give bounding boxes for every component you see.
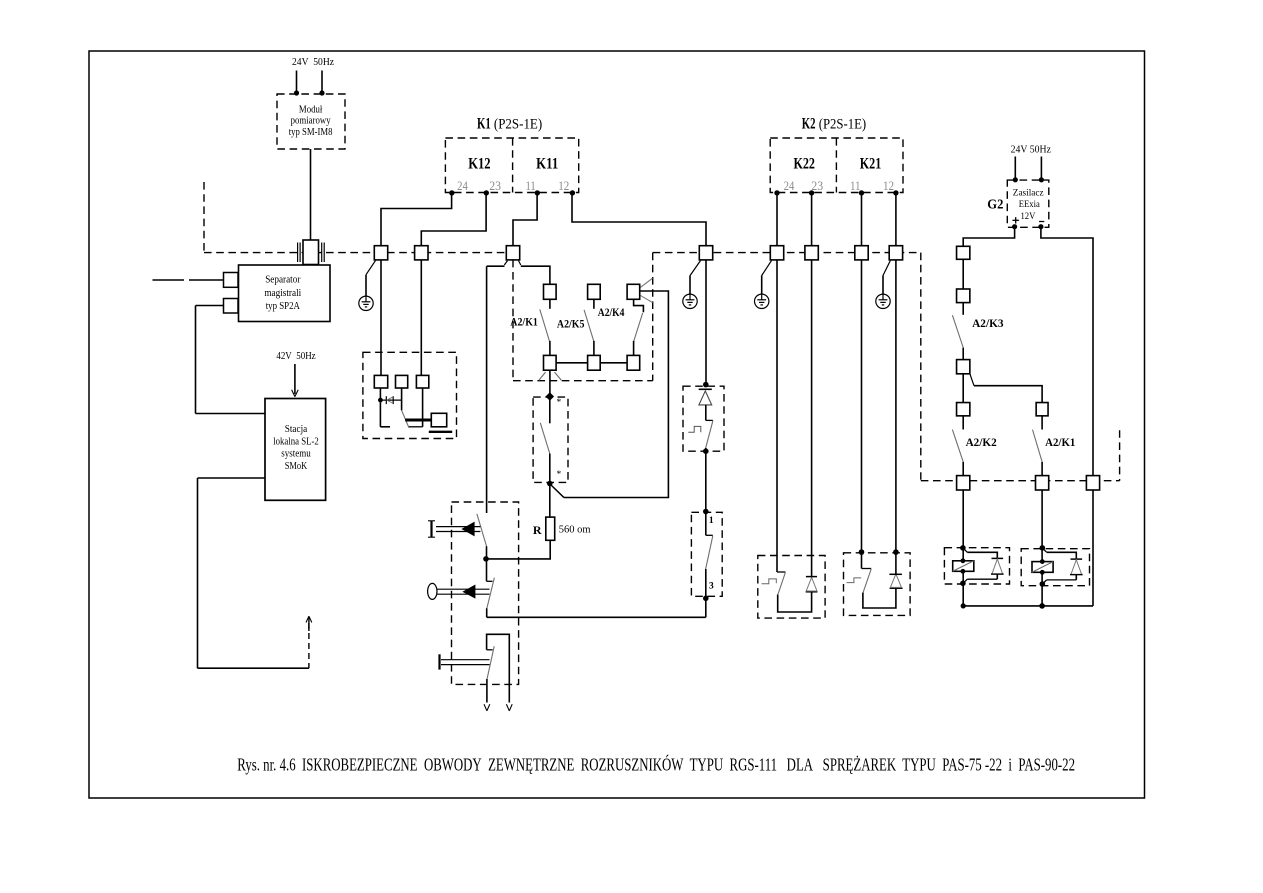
svg-text:24V 50Hz: 24V 50Hz <box>292 57 334 68</box>
svg-text:pomiarowy: pomiarowy <box>291 116 331 127</box>
svg-text:23: 23 <box>811 178 823 193</box>
svg-text:1: 1 <box>709 516 714 526</box>
svg-text:K2: K2 <box>802 116 816 133</box>
svg-text:K21: K21 <box>860 155 882 172</box>
svg-text:A2/K5: A2/K5 <box>557 319 585 331</box>
svg-text:*: * <box>557 398 562 408</box>
svg-text:11: 11 <box>525 178 535 193</box>
svg-text:systemu: systemu <box>281 449 310 460</box>
svg-text:SMoK: SMoK <box>285 461 308 472</box>
svg-text:Moduł: Moduł <box>299 104 323 115</box>
svg-text:A2/K1: A2/K1 <box>510 316 538 328</box>
svg-text:Zasilacz: Zasilacz <box>1013 187 1044 198</box>
svg-text:(P2S-1E): (P2S-1E) <box>819 117 867 133</box>
svg-text:lokalna SL-2: lokalna SL-2 <box>273 436 319 447</box>
svg-text:24: 24 <box>457 178 468 193</box>
svg-text:G2: G2 <box>987 198 1003 213</box>
svg-text:24V 50Hz: 24V 50Hz <box>1011 145 1052 156</box>
svg-text:A2/K4: A2/K4 <box>598 307 625 319</box>
svg-text:Rys. nr. 4.6 ISKROBEZPIECZNE: Rys. nr. 4.6 ISKROBEZPIECZNE OBWODY ZEWN… <box>237 754 1075 774</box>
svg-text:23: 23 <box>489 178 501 193</box>
svg-text:12: 12 <box>558 178 569 193</box>
svg-text:A2/K3: A2/K3 <box>972 318 1004 330</box>
svg-text:A2/K2: A2/K2 <box>966 437 997 449</box>
svg-text:11: 11 <box>850 178 860 193</box>
svg-text:K22: K22 <box>793 155 815 172</box>
svg-text:(P2S-1E): (P2S-1E) <box>494 117 542 133</box>
svg-text:560 om: 560 om <box>559 525 591 536</box>
svg-text:24: 24 <box>784 178 795 193</box>
svg-text:R: R <box>533 523 542 537</box>
svg-text:K12: K12 <box>468 155 491 172</box>
svg-text:magistrali: magistrali <box>264 288 301 299</box>
svg-text:EExia: EExia <box>1019 199 1041 210</box>
svg-text:*: * <box>557 470 562 480</box>
svg-text:K11: K11 <box>536 155 558 172</box>
svg-text:typ SM-IM8: typ SM-IM8 <box>289 127 333 138</box>
svg-text:3: 3 <box>709 582 714 592</box>
svg-text:12: 12 <box>883 178 894 193</box>
svg-text:Separator: Separator <box>265 275 301 286</box>
svg-text:42V 50Hz: 42V 50Hz <box>276 351 316 362</box>
svg-text:typ SP2A: typ SP2A <box>266 301 301 312</box>
svg-text:K1: K1 <box>477 116 491 133</box>
svg-text:Stacja: Stacja <box>285 424 308 435</box>
svg-text:12V: 12V <box>1020 211 1035 222</box>
svg-text:A2/K1: A2/K1 <box>1045 437 1076 449</box>
